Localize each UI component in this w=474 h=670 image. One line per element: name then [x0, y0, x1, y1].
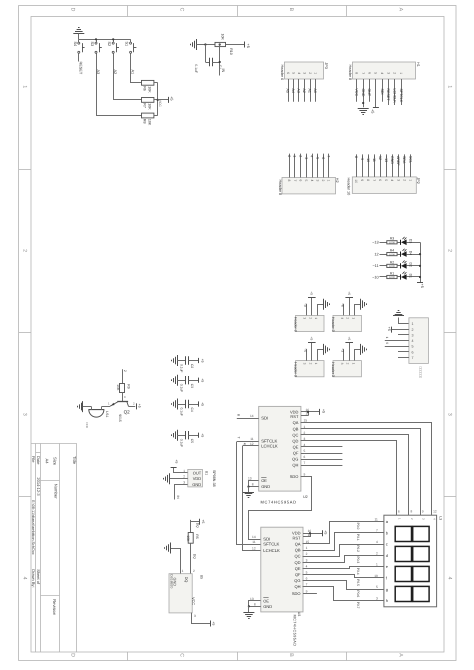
svg-text:D3: D3 [408, 239, 412, 243]
H1 pin 5 number [374, 72, 378, 74]
H1 wire OUT [367, 79, 371, 102]
svg-text:1: 1 [314, 317, 318, 319]
svg-text:RST: RST [290, 414, 299, 419]
display LED4 4-digit [384, 515, 442, 607]
wire ~11 to R2 [380, 265, 387, 267]
JP6 +5 wire [311, 342, 313, 360]
svg-text:10K: 10K [148, 103, 152, 110]
JP7 signal wire [340, 348, 344, 360]
ground C5 [172, 430, 178, 441]
svg-text:S2: S2 [107, 42, 111, 47]
U2 QH stub [301, 465, 343, 467]
svg-text:VDD: VDD [193, 476, 202, 481]
svg-text:g: g [386, 587, 388, 592]
svg-text:QH: QH [292, 463, 298, 468]
JP7 gnd wire [355, 350, 361, 361]
svg-text:2: 2 [447, 249, 453, 252]
svg-text:DQ: DQ [196, 523, 200, 528]
H1 pin 7 number [361, 72, 365, 74]
svg-text:3: 3 [447, 413, 453, 416]
power +5 Q2 [137, 403, 142, 409]
resistor R2 1000 [387, 260, 397, 268]
svg-text:GND: GND [263, 604, 272, 609]
svg-text:2: 2 [308, 72, 312, 74]
svg-text:7: 7 [304, 461, 306, 465]
JP2 pin 1 net SCL [408, 154, 412, 181]
H1 wire GND [361, 79, 365, 107]
svg-text:3: 3 [340, 317, 344, 319]
svg-text:OUT: OUT [367, 89, 371, 97]
svg-text:4: 4 [412, 339, 414, 343]
connector JP2 Header 10 [346, 177, 420, 195]
wire S1 to R6 [131, 54, 142, 83]
U3 SDO stub [303, 593, 317, 595]
display digit 4 glyph [395, 586, 429, 601]
U2 VDD RST to +5 [301, 411, 320, 416]
svg-text:QB: QB [295, 548, 301, 553]
svg-text:~9: ~9 [360, 156, 364, 160]
wire U3 QA to segment [303, 522, 377, 544]
display digit pin 9 [421, 508, 424, 515]
svg-text:D: D [69, 653, 75, 657]
JP2 pin 4 net GND [390, 154, 394, 181]
U2 pin names [261, 409, 299, 489]
display segment pin c (4) [376, 540, 388, 547]
svg-text:10K: 10K [148, 86, 152, 93]
svg-text:Size: Size [53, 457, 58, 466]
svg-text:8: 8 [366, 179, 370, 181]
JP5 pin numbers [340, 317, 355, 319]
svg-text:QD: QD [295, 560, 301, 565]
svg-text:GND: GND [361, 89, 365, 97]
svg-text:GND: GND [261, 484, 270, 489]
svg-text:12: 12 [252, 546, 256, 550]
svg-text:6: 6 [286, 72, 290, 74]
svg-text:2014-12-3: 2014-12-3 [36, 477, 41, 496]
svg-text:A2: A2 [113, 70, 117, 75]
svg-text:1: 1 [182, 569, 184, 573]
wireless pin 7 number [412, 356, 414, 360]
U2 pin numbers [248, 408, 309, 487]
svg-text:QG: QG [292, 457, 298, 462]
U1 OUT wire to +5 [174, 468, 188, 473]
svg-text:GND: GND [192, 482, 201, 487]
wireless pin 6 number [412, 350, 414, 354]
H2 pin 5 net ~3 [304, 154, 308, 182]
resistor R1 1000 [387, 271, 397, 279]
svg-text:1000: 1000 [389, 253, 395, 256]
ground button bus [73, 28, 84, 40]
svg-text:SDI: SDI [380, 89, 384, 95]
wire Q2 emitter to buzzer [102, 406, 111, 408]
svg-text:2: 2 [346, 363, 350, 365]
svg-text:Header 8: Header 8 [348, 65, 352, 81]
H1 wire LCHCLK [393, 79, 397, 105]
resistor R7 10K [142, 98, 154, 111]
svg-text:R4: R4 [390, 249, 394, 253]
svg-text:+5: +5 [246, 44, 250, 48]
JP5 signal wire [340, 303, 344, 315]
svg-text:+5: +5 [174, 460, 178, 464]
svg-text:~3: ~3 [304, 155, 308, 159]
U2 QA wire to display digit [301, 423, 432, 516]
svg-text:P0.5: P0.5 [356, 579, 360, 586]
svg-text:A4: A4 [45, 459, 50, 465]
svg-text:+5: +5 [201, 378, 205, 382]
U3 LCHCLK wire [243, 446, 261, 551]
svg-text:P0.2: P0.2 [356, 545, 360, 552]
wire Q2 collector to +5 [129, 406, 136, 408]
svg-text:OE: OE [261, 478, 267, 483]
power +5 C4 [199, 401, 205, 406]
label C2 [180, 364, 194, 372]
svg-text:1: 1 [351, 363, 355, 365]
svg-text:4: 4 [390, 179, 394, 181]
svg-text:P0.3: P0.3 [356, 557, 360, 564]
wire U3 QE to segment [303, 567, 377, 569]
ground U5 [165, 543, 171, 554]
svg-text:SFTCLK: SFTCLK [263, 542, 279, 547]
net label A3 [96, 70, 100, 75]
svg-text:1: 1 [306, 546, 308, 550]
switch S1 [125, 39, 137, 53]
JP3 pin 3 net A2 [302, 72, 306, 102]
svg-text:JP3: JP3 [324, 62, 328, 69]
label C3 [180, 384, 194, 392]
temperature sensor U5 DS18B20 [169, 574, 204, 613]
svg-text:c: c [386, 542, 388, 547]
svg-text:R2: R2 [390, 260, 394, 264]
svg-text:3: 3 [21, 413, 27, 416]
svg-text:LCHCLK: LCHCLK [263, 548, 280, 553]
net label IN [221, 69, 225, 73]
display digit pin 8 [409, 508, 413, 515]
svg-text:A3: A3 [96, 70, 100, 75]
svg-text:0: 0 [385, 342, 389, 344]
svg-text:2: 2 [308, 317, 312, 319]
svg-text:3: 3 [340, 363, 344, 365]
svg-text:d: d [386, 553, 388, 558]
svg-text:AREF: AREF [396, 156, 400, 166]
wireless pin5 wire [385, 342, 409, 346]
svg-text:DQ: DQ [184, 577, 188, 583]
power +5 C3 [199, 378, 205, 383]
svg-text:D: D [69, 8, 75, 12]
U2 SFTCLK wire net 7 [237, 437, 259, 442]
svg-text:9: 9 [422, 509, 424, 513]
svg-text:3: 3 [396, 179, 400, 181]
wireless pin 1 number [412, 322, 414, 326]
wireless pin2 wire to +5 [391, 329, 409, 331]
resistor R9 10K [116, 384, 131, 393]
svg-text:R5: R5 [195, 534, 199, 538]
wire U3 QF to segment [303, 575, 377, 578]
svg-text:L3: L3 [438, 516, 442, 520]
wire S4 to RESET [78, 53, 80, 61]
svg-text:12: 12 [433, 509, 437, 513]
net label P0.2 [356, 545, 360, 552]
svg-text:4: 4 [243, 443, 247, 445]
svg-text:C5: C5 [190, 439, 194, 443]
svg-text:Number: Number [53, 484, 58, 499]
U5 VCC wire to +5 [192, 613, 211, 624]
svg-text:8: 8 [236, 414, 240, 416]
svg-text:1: 1 [408, 179, 412, 181]
svg-text:QA: QA [295, 541, 301, 546]
svg-text:+5: +5 [170, 96, 174, 100]
svg-text:9015: 9015 [118, 414, 122, 422]
svg-text:C3: C3 [190, 384, 194, 388]
svg-text:+5: +5 [420, 284, 424, 288]
JP2 pin 6 net 12 [378, 154, 382, 181]
svg-text:U2: U2 [303, 495, 308, 499]
svg-text:2: 2 [306, 552, 308, 556]
svg-text:R1: R1 [390, 271, 394, 275]
svg-text:+5: +5 [310, 291, 314, 295]
svg-text:10K: 10K [186, 535, 190, 542]
svg-text:+5: +5 [201, 359, 205, 363]
svg-text:C4: C4 [190, 408, 194, 412]
svg-text:+5: +5 [212, 622, 216, 626]
svg-text:LS1: LS1 [105, 411, 109, 417]
JP2 pin 5 net ~13 [384, 154, 388, 181]
svg-text:SFTCLK: SFTCLK [399, 89, 403, 103]
svg-text:4: 4 [21, 577, 27, 580]
net label A1 [131, 70, 135, 75]
svg-text:3: 3 [183, 480, 185, 484]
svg-text:H1: H1 [416, 62, 420, 67]
svg-text:2: 2 [193, 569, 195, 573]
svg-text:5: 5 [291, 72, 295, 74]
wireless pin 5 number [412, 344, 414, 348]
ground JP4 [324, 299, 330, 310]
svg-text:+5: +5 [324, 530, 328, 534]
svg-text:1: 1 [21, 85, 27, 88]
display digit 3 glyph [395, 566, 429, 581]
svg-text:3: 3 [376, 597, 378, 601]
svg-text:A: A [397, 8, 403, 12]
svg-text:A0: A0 [313, 89, 317, 93]
power +5 JP7 [345, 337, 353, 343]
U2 QC wire to display digit [301, 435, 409, 516]
wire R10 to +5 [219, 43, 245, 45]
switch S4 [73, 39, 85, 53]
capacitor C5 0.1uF [177, 431, 199, 439]
U1 pin2 number [183, 475, 185, 479]
svg-text:7: 7 [306, 582, 308, 586]
power +5 U1 [171, 460, 179, 468]
svg-text:R9: R9 [127, 384, 131, 388]
svg-text:~11: ~11 [372, 264, 378, 268]
wire pullup common to +5 [154, 83, 168, 116]
ground C3 [172, 375, 178, 386]
net label P0.5 [356, 579, 360, 586]
H2 pin 3 net ~5 [315, 154, 319, 182]
wire IN net [219, 45, 221, 76]
wire ~13 to R3 [380, 242, 387, 244]
junction dots button bus [95, 38, 114, 40]
svg-text:VCC: VCC [355, 89, 359, 97]
wire U3 QC to segment [303, 545, 377, 557]
JP4 signal wire [303, 303, 307, 315]
svg-text:+5: +5 [310, 337, 314, 341]
ground JP7 [361, 344, 367, 355]
svg-text:2: 2 [412, 328, 414, 332]
svg-text:SP08N-38: SP08N-38 [212, 470, 216, 487]
LED D4 [397, 249, 420, 257]
svg-text:3: 3 [303, 317, 307, 319]
svg-text:Title: Title [72, 456, 77, 465]
svg-text:R6: R6 [143, 86, 147, 91]
svg-text:P0.6: P0.6 [356, 590, 360, 597]
svg-text:11: 11 [252, 540, 256, 544]
U5 pin numbers [182, 569, 196, 618]
H1 pin 2 number [393, 72, 397, 74]
JP7 +5 wire [349, 342, 351, 360]
svg-text:2: 2 [376, 551, 378, 555]
power +5 H1 pin5 [370, 108, 379, 114]
svg-text:+5: +5 [387, 327, 391, 331]
svg-text:1: 1 [293, 155, 297, 157]
H1 pin 6 number [367, 72, 371, 74]
svg-text:OUT: OUT [193, 470, 202, 475]
svg-text:10K: 10K [220, 34, 224, 41]
JP3 pin 2 net A1 [308, 72, 312, 102]
power +5 JP5 [345, 291, 353, 297]
svg-text:4: 4 [447, 577, 453, 580]
H2 pin 7 net 1 [293, 154, 297, 182]
svg-text:IN: IN [221, 69, 225, 73]
svg-text:12: 12 [378, 156, 382, 160]
svg-text:S1: S1 [125, 42, 129, 47]
JP4 +5 wire [311, 297, 313, 315]
H1 wire SDI [380, 79, 384, 102]
svg-text:1: 1 [447, 85, 453, 88]
svg-text:RESET: RESET [79, 62, 83, 75]
wireless pin7 wire [398, 357, 409, 359]
H1 pin 4 number [380, 72, 384, 74]
svg-text:1000: 1000 [389, 265, 395, 268]
svg-text:1: 1 [351, 317, 355, 319]
svg-text:4: 4 [376, 540, 378, 544]
svg-text:3: 3 [306, 558, 308, 562]
svg-text:QD: QD [292, 439, 298, 444]
wire U3 QD to segment [303, 556, 377, 563]
U1 VDD wire to ground [169, 478, 188, 480]
svg-text:S4: S4 [73, 42, 77, 47]
svg-text:3: 3 [412, 333, 414, 337]
wireless pin6 wire [398, 351, 409, 353]
ground U3 [243, 613, 254, 619]
svg-text:8: 8 [254, 602, 256, 606]
svg-text:C: C [179, 8, 185, 12]
ground wireless [393, 311, 404, 316]
svg-text:QF: QF [295, 572, 301, 577]
capacitor C4 0.1uF [177, 400, 199, 408]
wire 12 to R4 [380, 254, 387, 256]
svg-text:OE: OE [263, 599, 269, 604]
svg-text:R7: R7 [143, 103, 147, 108]
svg-text:4: 4 [306, 564, 308, 568]
svg-text:8: 8 [411, 509, 413, 513]
net label P0.3 [356, 557, 360, 564]
transistor Q2 9015 [108, 402, 135, 422]
svg-text:6: 6 [304, 455, 306, 459]
ground R10 [191, 39, 197, 50]
svg-text:+5: +5 [370, 109, 374, 113]
H1 wire SFTCLK [399, 79, 403, 105]
svg-text:~13: ~13 [372, 241, 378, 245]
H2 pin 4 net 4 [310, 154, 314, 182]
wire U3 QG to segment [303, 581, 377, 590]
svg-text:3: 3 [315, 180, 319, 182]
svg-text:B: B [288, 653, 294, 657]
display digit pin names [397, 518, 436, 520]
svg-text:QE: QE [295, 566, 301, 571]
net label RESET [79, 62, 83, 75]
svg-text:Header 3: Header 3 [294, 362, 298, 377]
svg-text:5: 5 [412, 344, 414, 348]
display digit pin 12 [432, 508, 437, 515]
svg-text:SCL: SCL [408, 156, 412, 163]
net label ~10 [372, 275, 378, 279]
resistor R8 10K [142, 113, 154, 126]
wire R9 to Q2 base [123, 393, 126, 402]
svg-text:3: 3 [302, 72, 306, 74]
wire buzzer to ground [83, 406, 92, 408]
power +5 U5 [211, 621, 216, 627]
net label A2 [113, 70, 117, 75]
JP2 pin 9 net ~9 [360, 154, 364, 181]
display segment pin a (11) [374, 517, 388, 524]
power +5 wireless [387, 327, 392, 333]
U3 pin names [263, 531, 301, 609]
ground C2 [172, 355, 178, 366]
svg-text:11: 11 [250, 437, 254, 441]
svg-text:SDO: SDO [290, 474, 299, 479]
ground JP6 [324, 344, 330, 355]
U3 SFTCLK wire [237, 442, 261, 545]
svg-text:5: 5 [384, 179, 388, 181]
svg-text:1000: 1000 [389, 242, 395, 245]
H1 pin 8 number [355, 72, 359, 74]
wire R5 top [191, 520, 200, 533]
LED D2 [397, 261, 420, 269]
svg-text:7: 7 [412, 356, 414, 360]
svg-text:Header 3: Header 3 [294, 317, 298, 332]
svg-text:S3: S3 [90, 42, 94, 47]
svg-text:P0.1: P0.1 [356, 534, 360, 541]
svg-text:3: 3 [303, 363, 307, 365]
ground C4 [172, 399, 178, 410]
svg-text:A1: A1 [308, 89, 312, 93]
capacitor C2 0.1uF [177, 356, 199, 364]
svg-text:Sheet of: Sheet of [36, 569, 41, 585]
resistor R5 10K [186, 533, 199, 544]
svg-text:R3: R3 [390, 237, 394, 241]
JP4 pin numbers [303, 317, 318, 319]
svg-text:DQ: DQ [192, 554, 196, 559]
svg-text:9: 9 [304, 473, 306, 477]
svg-text:7: 7 [327, 155, 331, 157]
U2 SDO cascade wire [249, 477, 312, 540]
H2 pin 1 net 7 [327, 154, 331, 182]
wire LED +5 bus [419, 242, 421, 282]
resistor R4 1000 [387, 249, 397, 257]
svg-text:Header 3: Header 3 [331, 362, 335, 377]
svg-text:MC74HC595AD: MC74HC595AD [293, 615, 297, 647]
svg-text:SDO: SDO [292, 591, 301, 596]
